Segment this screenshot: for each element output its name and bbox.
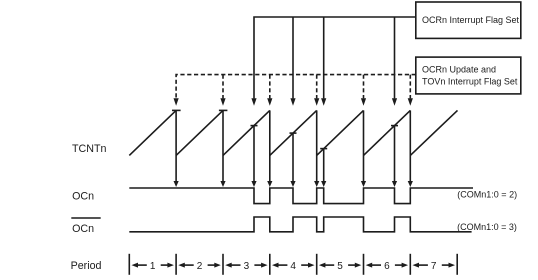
svg-text:OCn: OCn: [72, 191, 94, 203]
svg-text:TOVn Interrupt Flag Set: TOVn Interrupt Flag Set: [422, 76, 518, 86]
svg-text:(COMn1:0 = 2): (COMn1:0 = 2): [457, 190, 517, 200]
arrowhead solid 1: [251, 98, 256, 106]
period axis ticks: [129, 254, 457, 275]
wire solid horizontal from OCRn Interrupt Flag Set box: [254, 17, 416, 98]
label OCn inverted with overline: [71, 218, 100, 235]
svg-text:3: 3: [244, 261, 250, 272]
svg-text:OCRn Update and: OCRn Update and: [422, 64, 496, 74]
compare match drop line 4 with arrow to OCn: [394, 126, 396, 182]
period 1 arrows and number: [132, 261, 174, 272]
svg-text:OCn: OCn: [72, 223, 94, 235]
compare match tick ramp 3: [251, 125, 258, 127]
arrowhead dashed 3: [267, 98, 272, 106]
drop line peak 3 with arrow to OCn: [269, 110, 271, 181]
TCNTn sawtooth ramp 3: [223, 110, 270, 155]
compare match drop line 2 with arrow to OCn: [292, 133, 294, 181]
drop line peak 4 with arrow to OCn: [316, 110, 318, 181]
wire dashed horizontal from OCRn Update box: [176, 75, 416, 99]
TCNTn sawtooth ramp 7: [410, 110, 457, 155]
svg-text:Period: Period: [71, 260, 102, 272]
period 7 arrows and number: [413, 261, 456, 272]
period 2 arrows and number: [178, 261, 221, 272]
period 3 arrows and number: [225, 261, 267, 272]
drop line peak 5 with arrow to OCn: [363, 110, 365, 181]
period 6 arrows and number: [366, 261, 408, 272]
TOP tick peak 2: [219, 109, 228, 111]
arrowhead solid 3: [321, 98, 326, 106]
arrowhead solid 4: [392, 98, 397, 106]
wire solid drop 2: [292, 17, 294, 98]
wire dashed drop 5: [363, 75, 365, 99]
OCn inverted waveform: [129, 217, 471, 232]
wire solid drop 3: [323, 17, 325, 98]
drop line peak 2 with arrow to OCn: [222, 110, 224, 181]
svg-text:TCNTn: TCNTn: [72, 143, 106, 155]
compare match drop line 3 with arrow to OCn: [323, 149, 325, 182]
box OCRn Update and TOVn Interrupt Flag Set: [416, 57, 521, 94]
arrowhead dashed 2: [220, 98, 225, 106]
compare match tick ramp 4: [290, 132, 297, 134]
TCNTn sawtooth ramp 1: [129, 110, 176, 155]
wire solid drop 4: [394, 17, 396, 98]
compare match tick ramp 6: [391, 125, 398, 127]
wire dashed drop 3: [269, 75, 271, 99]
svg-text:7: 7: [431, 261, 437, 272]
svg-text:1: 1: [150, 261, 156, 272]
OCn waveform: [129, 188, 473, 204]
wire dashed drop 6: [409, 75, 411, 99]
drop line peak 1 with arrow to OCn: [175, 110, 177, 181]
TOP tick peak 1: [172, 109, 181, 111]
svg-text:6: 6: [384, 261, 390, 272]
svg-text:(COMn1:0 = 3): (COMn1:0 = 3): [457, 222, 517, 232]
TCNTn sawtooth ramp 6: [364, 110, 411, 155]
arrowhead dashed 6: [408, 98, 413, 106]
svg-text:5: 5: [337, 261, 343, 272]
compare match tick ramp 5: [320, 148, 327, 150]
arrowhead solid 2: [290, 98, 295, 106]
compare match drop line 1 with arrow to OCn: [253, 126, 255, 182]
wire dashed drop 4: [316, 75, 318, 99]
wire dashed drop 2: [222, 75, 224, 99]
TCNTn sawtooth ramp 4: [270, 110, 317, 155]
box OCRn Interrupt Flag Set: [416, 2, 521, 38]
period 5 arrows and number: [319, 261, 361, 272]
TCNTn sawtooth ramp 5: [317, 110, 364, 155]
svg-text:2: 2: [197, 261, 203, 272]
TCNTn sawtooth ramp 2: [176, 110, 223, 155]
arrowhead dashed 5: [361, 98, 366, 106]
drop line peak 6 with arrow to OCn: [409, 110, 411, 181]
svg-text:4: 4: [290, 261, 296, 272]
svg-text:OCRn Interrupt Flag Set: OCRn Interrupt Flag Set: [422, 15, 520, 25]
period 4 arrows and number: [272, 261, 315, 272]
arrowhead dashed 1: [174, 98, 179, 106]
arrowhead dashed 4: [314, 98, 319, 106]
